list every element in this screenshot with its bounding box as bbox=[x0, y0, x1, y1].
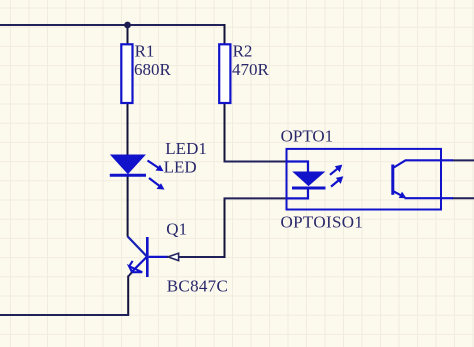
resistor R2 bbox=[219, 44, 230, 103]
resistor R1 bbox=[121, 44, 132, 103]
svg-text:LED: LED bbox=[164, 158, 197, 177]
svg-text:OPTO1: OPTO1 bbox=[281, 127, 334, 146]
svg-text:R2: R2 bbox=[233, 42, 253, 61]
LED1 light emission arrows bbox=[148, 161, 165, 190]
wire: R1 branch from junction down to R1 top bbox=[127, 25, 129, 45]
wire: main top rail y=25 from left edge to R2 column bbox=[0, 24, 225, 26]
wire: drop from top rail to R2 top bbox=[224, 24, 226, 45]
OPTO1 light coupling arrows bbox=[330, 165, 343, 187]
optocoupler OPTO1 body box bbox=[287, 149, 442, 210]
wire: opto emitter to right edge bbox=[452, 197, 474, 199]
svg-text:Q1: Q1 bbox=[166, 220, 187, 239]
LED LED1 (diode triangle and cathode bar) bbox=[110, 155, 146, 175]
OPTO1 phototransistor (collector pin 4 / emitter pin 3 with filled arrow) bbox=[393, 160, 453, 198]
transistor Q1 (NPN, base bar / collector / emitter with open arrow / base pin arrow) bbox=[128, 236, 179, 277]
svg-text:470R: 470R bbox=[232, 60, 270, 79]
node junction dot bbox=[124, 22, 131, 29]
svg-text:R1: R1 bbox=[135, 42, 155, 61]
wire: LED1 cathode down to Q1 collector bbox=[127, 175, 129, 237]
OPTO1 internal LED (anode pin 1 / cathode pin 2) bbox=[287, 162, 326, 199]
svg-text:BC847C: BC847C bbox=[167, 277, 228, 296]
svg-text:OPTOISO1: OPTOISO1 bbox=[281, 212, 364, 231]
wire: Q1 emitter down and left to edge bbox=[127, 276, 129, 316]
svg-text:680R: 680R bbox=[134, 60, 172, 79]
wire: Q1 base to opto input return, right then up to opto pin 2 bbox=[179, 256, 225, 258]
wire: R2 bottom down then right to opto pin 1 bbox=[224, 103, 226, 162]
wire: R1 bottom to LED1 anode bbox=[127, 103, 129, 156]
svg-text:LED1: LED1 bbox=[165, 139, 207, 158]
wire: opto collector to right edge bbox=[452, 159, 474, 161]
